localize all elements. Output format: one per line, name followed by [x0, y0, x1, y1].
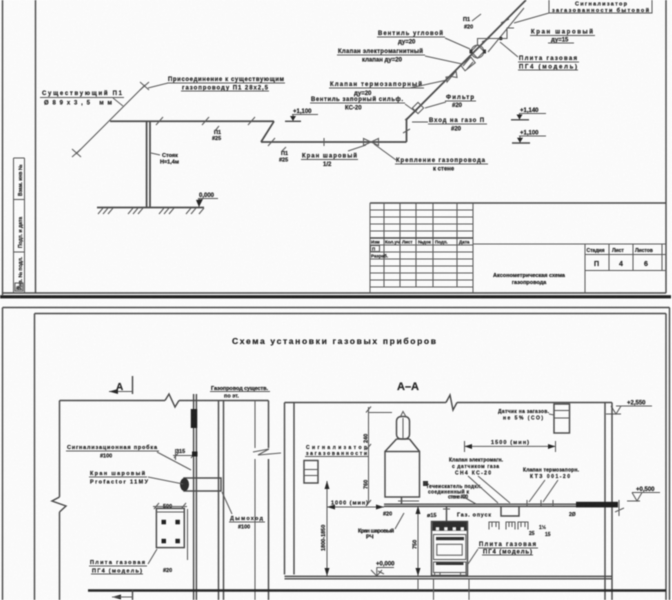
gas signal device box (top right) — [514, 0, 652, 23]
label gas sensor 5% — [498, 409, 554, 422]
slash ticks on pipe — [156, 117, 255, 125]
section label A-A — [397, 381, 419, 393]
valve symbol on diagonal — [446, 71, 457, 82]
label d20 heater drop — [383, 512, 392, 518]
branch staircase to ball valve label — [478, 28, 515, 45]
label P1 d25 (first) — [212, 126, 221, 142]
sheet1 frame left — [35, 0, 37, 293]
pipe clamps under pipe — [489, 522, 551, 538]
tick on lower pipe — [268, 138, 275, 146]
junction tick — [323, 138, 325, 146]
label gas leak detector — [426, 484, 483, 501]
diagonal jog down from main run — [261, 121, 274, 142]
label P1 d20 flag — [463, 14, 481, 31]
label ball valve profactor — [89, 470, 183, 486]
short verticals below floor — [418, 579, 469, 600]
section cut marker A — [109, 376, 133, 394]
wall signal device — [304, 461, 318, 484]
label thermal shutoff valve — [329, 80, 447, 97]
section: left wall pair — [285, 403, 295, 575]
tick on entry vertical — [403, 129, 410, 133]
elevation +0,000 — [371, 562, 395, 577]
sheet1 outer left border — [2, 0, 4, 295]
plan: clamp mark on riser — [192, 452, 198, 457]
label P1 d25 (second) — [279, 147, 288, 164]
ground hatching — [98, 208, 204, 214]
sheet1 bottom thick edge — [0, 295, 671, 298]
main gas pipe in section — [384, 504, 576, 506]
gas stove (section) — [432, 522, 468, 577]
label ball valve du15 — [530, 29, 595, 44]
wall break lightning — [253, 449, 281, 455]
wall crossing slash — [405, 110, 417, 120]
label corner vent valve — [377, 30, 470, 49]
sheet2 inner frame — [35, 314, 667, 600]
dim 1500 min — [465, 440, 556, 452]
lower horizontal pipe y=142 — [261, 141, 407, 143]
label filter d20 — [425, 95, 476, 109]
double slash (thermal shutoff) on diagonal — [461, 57, 476, 71]
label pipe fixing to wall — [374, 144, 488, 173]
heater gas drop — [398, 498, 419, 505]
section: ceiling — [285, 395, 613, 410]
plan: right wall pair — [219, 401, 224, 600]
vertical dim 1800-1850 — [321, 481, 330, 576]
section floor double line — [285, 576, 613, 578]
plan: left wall with break — [52, 401, 66, 600]
stove gas drop (section) — [443, 506, 450, 521]
ground line — [97, 207, 204, 209]
label bellows valve KC-20 — [310, 96, 416, 112]
vertical rise at building entry — [406, 120, 408, 143]
riser (stoyak) double line — [147, 121, 150, 207]
sheet1 side stamp column — [14, 158, 25, 293]
sheet1 frame right — [665, 0, 667, 293]
crossing diagonal (branch) — [488, 8, 524, 52]
heater dim lines left — [364, 407, 393, 507]
existing gas main P1 (diagonal) — [72, 82, 149, 157]
label gas drop — [457, 513, 491, 519]
label gas stove (axon) — [500, 42, 579, 71]
main ascending diagonal (kitchen feed) — [407, 0, 527, 120]
label chimney — [222, 492, 265, 531]
label signal device — [305, 445, 368, 457]
plan: riser pipe double line — [194, 394, 197, 600]
label: connection to existing pipeline — [148, 77, 285, 92]
plan: stove gas drop line — [187, 509, 189, 560]
label gas stove (plan) — [89, 549, 157, 575]
filter symbol on diagonal — [412, 102, 423, 113]
section: right wall pair — [605, 403, 612, 600]
title block — [370, 203, 666, 293]
leader lines to pipe fittings — [462, 476, 558, 504]
label gas entry — [412, 118, 487, 133]
plan: tee sleeve to kitchen — [180, 478, 221, 491]
sheet2 title — [232, 336, 436, 346]
branch node dot — [499, 37, 503, 41]
elevation +1,100 (right) — [512, 131, 546, 144]
label o15 — [427, 513, 436, 519]
water heater — [385, 412, 428, 498]
label gas stove (section) — [468, 542, 538, 564]
ball valve symbol on lower pipe — [364, 139, 379, 146]
labels cluster: thermal valve — [523, 468, 580, 481]
mid vertical line 268.5 with break — [268, 401, 270, 600]
pipe sleeve through wall — [576, 502, 618, 508]
elevation +0,500 — [627, 487, 660, 501]
wall cabinet top right — [554, 404, 570, 433]
label ball valve (section) — [358, 513, 404, 541]
riser label — [151, 153, 179, 166]
labels cluster: electromagnetic valve — [449, 458, 504, 477]
section cut marker A (bottom, cut off) — [112, 590, 133, 600]
lower slab line — [88, 589, 666, 592]
dim 315 — [173, 449, 196, 460]
sheet2 outer border — [3, 308, 670, 600]
plan: riser black mark — [191, 409, 197, 428]
dim 500 above stove — [153, 503, 187, 510]
main horizontal pipe run y=121 — [110, 120, 274, 122]
plan: top wall — [60, 394, 269, 407]
label d20 (plan) — [163, 568, 172, 574]
elevation +2,550 — [606, 401, 652, 415]
label signal plug — [66, 444, 191, 470]
label ball valve 1/2 — [301, 145, 366, 168]
gas meter box under pipe — [501, 507, 519, 517]
elevation mark 0,000 — [196, 193, 218, 207]
elevation +1,140 (right) — [511, 108, 546, 120]
label existing riser — [210, 386, 270, 400]
electromagnetic valve circle on diagonal — [470, 45, 487, 58]
small ticks on pipe right part — [527, 500, 553, 506]
mid vertical line 255 with break — [254, 401, 256, 600]
small fitting marks right of wall — [569, 500, 624, 518]
label: existing pipe — [40, 90, 124, 107]
elevation +1,100 at pipe — [285, 109, 318, 121]
label electromagnetic valve — [337, 48, 462, 64]
sheet1 frame bottom thin — [3, 292, 667, 294]
ticks on upper diagonal — [482, 19, 509, 42]
plan: gas stove square — [156, 508, 184, 547]
stove height dim — [413, 506, 421, 576]
dim 1000 min (left of heater) — [327, 501, 384, 510]
